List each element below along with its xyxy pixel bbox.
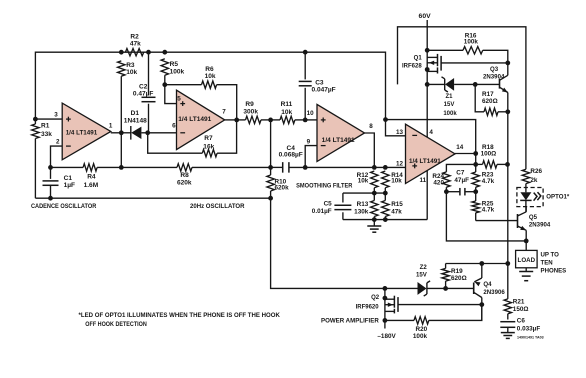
resistor R10 620k: [270, 120, 272, 175]
svg-text:2: 2: [56, 139, 60, 146]
svg-text:R11: R11: [281, 101, 293, 108]
svg-text:Q4: Q4: [483, 281, 492, 288]
svg-text:100k: 100k: [443, 111, 457, 117]
transistor Q1 IRF628 n-mosfet: [427, 56, 437, 58]
wire Q4 base: [446, 287, 474, 289]
svg-text:R2: R2: [130, 34, 139, 41]
svg-text:3: 3: [54, 112, 58, 119]
svg-text:4.7k: 4.7k: [482, 207, 495, 214]
wire line2 R19 top row: [446, 263, 508, 265]
node Q3 base tee: [473, 82, 478, 87]
resistor R12 10k: [371, 171, 378, 188]
node zener row / pin4 column: [425, 82, 430, 87]
node Q2 drain: [383, 296, 388, 301]
svg-text:IRF628: IRF628: [402, 64, 422, 70]
svg-text:1/4 LT1491: 1/4 LT1491: [66, 130, 98, 137]
node D1-C2-pin6: [145, 130, 150, 135]
svg-text:C3: C3: [315, 79, 324, 86]
resistor R26 2k: [522, 169, 529, 183]
svg-text:CADENCE OSCILLATOR: CADENCE OSCILLATOR: [31, 203, 97, 210]
wire Q1 gate to Q3 collector node: [441, 62, 508, 64]
wire R7 branch from pin6 node: [148, 133, 203, 153]
svg-text:R19: R19: [451, 268, 463, 275]
svg-text:Z2: Z2: [420, 264, 428, 271]
svg-text:2k: 2k: [530, 177, 538, 184]
svg-text:*LED OF OPTO1 ILLUMINATES WHEN: *LED OF OPTO1 ILLUMINATES WHEN THE PHONE…: [79, 312, 281, 319]
resistor R20 100k: [385, 319, 414, 321]
wire pin 5 lead: [165, 85, 177, 104]
resistor R14 10k: [382, 171, 389, 188]
svg-text:10k: 10k: [126, 69, 137, 76]
node C7-R23-R25: [473, 189, 478, 194]
node output14: [473, 151, 478, 156]
node R13-ground: [372, 217, 377, 222]
transistor Q2 IRF9620 p-mosfet: [385, 298, 395, 300]
svg-text:13: 13: [396, 129, 404, 136]
node R12-R13: [372, 191, 377, 196]
svg-text:SMOOTHING FILTER: SMOOTHING FILTER: [296, 183, 353, 190]
wire pin 3 lead: [35, 118, 62, 120]
wire output column down: [475, 154, 477, 173]
wire D1 node to pin 6: [148, 132, 177, 134]
wire Q2 gate wire: [398, 304, 482, 306]
svg-text:Q1: Q1: [414, 56, 423, 62]
svg-text:1µF: 1µF: [64, 182, 75, 189]
wire 60V rail: [398, 27, 526, 170]
svg-text:47k: 47k: [391, 208, 402, 215]
svg-text:1N4148: 1N4148: [124, 117, 147, 124]
node R5-R6-pin5: [162, 82, 167, 87]
resistor R4 1.6M: [51, 166, 84, 168]
resistor R3 10k: [118, 61, 125, 76]
wire bottom rail: [35, 197, 270, 199]
wire R3 to output node: [120, 76, 122, 133]
LOAD box: [516, 250, 538, 267]
node feedback-pin13: [383, 117, 388, 122]
node R9-R11-R10: [268, 118, 273, 123]
svg-text:11: 11: [420, 177, 427, 184]
svg-text:C1: C1: [64, 175, 73, 182]
svg-text:10k: 10k: [205, 73, 216, 80]
svg-text:47k: 47k: [130, 41, 141, 48]
node Q4 collector - Q2 gate: [479, 302, 484, 307]
node Q4 emitter on line2: [479, 261, 484, 266]
svg-text:7: 7: [222, 108, 226, 115]
svg-text:R4: R4: [87, 174, 96, 181]
svg-text:2N3904: 2N3904: [529, 221, 551, 228]
svg-text:R8: R8: [180, 172, 189, 179]
svg-text:130k: 130k: [354, 208, 369, 215]
svg-text:6: 6: [172, 123, 176, 130]
svg-text:20Hz OSCILLATOR: 20Hz OSCILLATOR: [190, 203, 245, 210]
node R19-Z2-Q4base: [443, 286, 448, 291]
svg-text:10k: 10k: [358, 178, 369, 185]
wire bottom rail down to power amp section: [271, 198, 385, 288]
wire tip to node: [225, 119, 237, 121]
node output U1a: [119, 130, 124, 135]
wire bottom row of filter: [343, 219, 427, 221]
svg-text:100k: 100k: [464, 39, 479, 46]
node output U1b: [234, 118, 239, 123]
svg-text:LOAD: LOAD: [518, 258, 536, 264]
transistor Q4 2N3906 pnp: [473, 283, 475, 295]
capacitor C2 0.47uF: [148, 52, 150, 95]
wire output pin1 to D1 node: [111, 132, 122, 134]
svg-text:R26: R26: [530, 168, 542, 175]
node rail-C2: [146, 50, 151, 55]
svg-text:100k: 100k: [170, 69, 185, 76]
op-amp U1d 1/4 LT1491 output amplifier: [406, 124, 456, 183]
svg-text:IRF9620: IRF9620: [356, 304, 380, 310]
svg-text:1.6M: 1.6M: [84, 182, 99, 189]
svg-text:0.47µF: 0.47µF: [133, 91, 154, 98]
svg-text:420: 420: [433, 180, 444, 187]
node R18-R23-R24: [473, 162, 478, 167]
resistor R21 150 ohm: [507, 264, 509, 299]
svg-text:Z1: Z1: [445, 94, 453, 100]
capacitor C3 0.047uF: [304, 52, 306, 79]
wire R24 branch: [446, 164, 475, 172]
svg-text:0.068µF: 0.068µF: [279, 152, 303, 159]
wire R24 column to line1: [446, 192, 526, 241]
supply 60V: [426, 20, 428, 27]
svg-text:R20: R20: [416, 326, 428, 333]
node pin3: [33, 117, 38, 122]
node R8-C4-R10: [268, 165, 273, 170]
node R11-C3-pin10: [303, 118, 308, 123]
svg-text:300k: 300k: [243, 108, 258, 115]
svg-text:R9: R9: [245, 101, 254, 108]
wire Q1 main column: [426, 27, 428, 85]
svg-text:C2: C2: [139, 84, 148, 91]
transistor Q3 2N3904 npn: [475, 83, 499, 85]
wire output 8: [365, 133, 375, 167]
diode D1 1N4148: [121, 132, 131, 134]
wire long right column down: [507, 112, 509, 264]
svg-text:R13: R13: [357, 201, 369, 208]
svg-text:1/4 LT1491: 1/4 LT1491: [178, 116, 212, 123]
node rail-R3: [119, 50, 124, 55]
svg-text:620k: 620k: [275, 184, 290, 191]
wire pin 4 to 60V rail: [426, 84, 428, 137]
svg-text:620Ω: 620Ω: [451, 275, 467, 282]
node gate-R16-collector: [505, 61, 510, 66]
node Q1 drain / R16: [425, 48, 430, 53]
resistor R16 100k: [427, 49, 463, 51]
node pin2-C1-R4: [48, 165, 53, 170]
ground below C6: [501, 332, 515, 334]
svg-text:60V: 60V: [419, 13, 432, 20]
svg-text:C5: C5: [324, 200, 333, 207]
svg-text:15V: 15V: [416, 271, 428, 278]
svg-text:TEN: TEN: [541, 259, 553, 266]
capacitor C6 0.033uF: [500, 321, 515, 323]
svg-text:33k: 33k: [41, 131, 52, 138]
resistor R13 130k: [371, 201, 378, 217]
wire mid junction row: [343, 192, 385, 194]
node Q1 source: [425, 67, 430, 72]
svg-text:1/4 LT1491: 1/4 LT1491: [409, 158, 441, 165]
svg-text:14: 14: [456, 144, 464, 151]
node R4-R8-output riser: [119, 165, 124, 170]
svg-text:16k: 16k: [203, 143, 214, 150]
svg-text:2N3906: 2N3906: [483, 289, 505, 296]
svg-text:R3: R3: [126, 62, 135, 69]
capacitor C5 0.01uF branch: [342, 193, 344, 202]
resistor R25 4.7k: [475, 192, 477, 201]
resistor R1 33k: [34, 119, 36, 124]
resistor R11 10k: [271, 119, 280, 121]
wire pin 2 lead: [51, 146, 63, 167]
resistor R7 16k: [202, 150, 217, 157]
ground below R13: [373, 220, 375, 226]
resistor R6 10k: [165, 84, 202, 86]
wire output riser: [120, 133, 122, 168]
svg-text:10k: 10k: [391, 178, 402, 185]
node Q2 source / R20: [383, 318, 388, 323]
capacitor C7 47uF: [446, 191, 460, 193]
resistor R18 100 ohm: [476, 163, 483, 165]
svg-text:2N3904: 2N3904: [483, 74, 505, 81]
resistor R8 620k: [121, 166, 177, 168]
svg-text:1490/1491 TA03: 1490/1491 TA03: [517, 336, 544, 340]
svg-text:150Ω: 150Ω: [513, 306, 529, 313]
resistor R17 620 ohm: [475, 84, 484, 111]
svg-text:Q2: Q2: [371, 295, 380, 301]
svg-text:15V: 15V: [444, 102, 455, 108]
resistor R24 420: [443, 172, 450, 187]
node rail-C3: [303, 50, 308, 55]
svg-text:R1: R1: [41, 123, 50, 130]
wire Q2 column to -180V: [384, 288, 386, 328]
svg-text:R7: R7: [204, 135, 213, 142]
resistor R23 4.7k: [472, 172, 479, 187]
wire pin 10 lead: [305, 119, 317, 121]
op-amp U1b 1/4 LT1491 20Hz oscillator: [177, 90, 225, 149]
svg-text:4: 4: [429, 129, 433, 136]
opto-isolator OPTO1 dashed box: [517, 188, 543, 207]
svg-text:POWER AMPLIFIER: POWER AMPLIFIER: [321, 318, 379, 325]
svg-text:8: 8: [369, 123, 373, 130]
svg-text:C7: C7: [456, 170, 465, 177]
node pin9 on C4 row: [303, 165, 308, 170]
node pin12-R14: [383, 165, 388, 170]
zener Z1 15V: [427, 83, 445, 85]
svg-text:1: 1: [109, 122, 113, 129]
svg-text:Q5: Q5: [529, 214, 538, 221]
svg-text:47µF: 47µF: [454, 177, 469, 184]
svg-text:0.033µF: 0.033µF: [517, 326, 541, 333]
svg-text:5: 5: [177, 95, 181, 102]
svg-text:620Ω: 620Ω: [482, 98, 498, 105]
resistor R15 47k: [382, 201, 389, 217]
resistor R5 100k: [161, 59, 168, 75]
node R10-bottom-rail: [268, 196, 273, 201]
wire top rail of oscillators: [35, 52, 385, 119]
resistor R19 620 ohm: [445, 264, 447, 269]
svg-text:10k: 10k: [281, 109, 292, 116]
svg-text:R5: R5: [170, 61, 179, 68]
wire pin 12 lead: [385, 166, 405, 168]
svg-text:R21: R21: [513, 299, 525, 306]
node line1-load-emitter: [524, 239, 529, 244]
transistor Q5 2N3904 npn: [517, 214, 519, 228]
zener Z2 15V: [427, 287, 446, 289]
svg-text:0.047µF: 0.047µF: [312, 87, 336, 94]
svg-text:R6: R6: [205, 66, 214, 73]
svg-text:–180V: –180V: [377, 333, 396, 340]
wire pin 13 lead: [386, 120, 406, 136]
svg-text:C6: C6: [517, 317, 526, 324]
svg-text:PHONES: PHONES: [541, 267, 567, 274]
node R14-R15: [383, 191, 388, 196]
wire C4 row to R12/R14: [305, 166, 385, 168]
svg-text:4.7k: 4.7k: [482, 178, 495, 185]
svg-text:10: 10: [307, 110, 315, 117]
svg-text:0.01µF: 0.01µF: [312, 208, 332, 215]
wire output 14: [455, 153, 476, 155]
op-amp U1c 1/4 LT1491 smoothing filter: [317, 104, 365, 161]
op-amp U1a 1/4 LT1491 cadence oscillator: [62, 103, 111, 160]
node R15-pin11-riser: [383, 217, 388, 222]
svg-text:100k: 100k: [413, 333, 428, 340]
node rail-R5: [162, 50, 167, 55]
svg-text:D1: D1: [131, 110, 140, 117]
svg-text:UP TO: UP TO: [541, 251, 560, 258]
wire pin 9 lead: [305, 146, 317, 168]
svg-text:9: 9: [307, 138, 311, 145]
svg-text:620k: 620k: [177, 179, 192, 186]
node C7-R24: [444, 189, 449, 194]
svg-text:100Ω: 100Ω: [481, 150, 497, 157]
resistor R2 47k: [125, 49, 143, 56]
node R17-emitter: [505, 109, 510, 114]
node Z2 row column: [383, 286, 388, 291]
ground below LOAD: [525, 268, 527, 272]
LED of OPTO1: [525, 184, 527, 193]
node output8-R12: [372, 165, 377, 170]
node R18 right on long column: [505, 162, 510, 167]
wire Q5 base row from R25: [476, 220, 518, 222]
node line2 to R21: [505, 261, 510, 266]
svg-text:12: 12: [396, 160, 404, 167]
wire pin 11 lead: [426, 171, 428, 220]
svg-text:1/4 LT1491: 1/4 LT1491: [322, 137, 356, 144]
resistor R9 300k: [237, 119, 246, 121]
svg-text:OPTO1*: OPTO1*: [546, 194, 570, 201]
svg-text:OFF HOOK DETECTION: OFF HOOK DETECTION: [85, 321, 147, 328]
svg-text:Q3: Q3: [490, 66, 499, 73]
opto light symbol: [534, 193, 537, 201]
svg-text:R15: R15: [391, 201, 403, 208]
node C1-bottom-rail: [48, 196, 53, 201]
capacitor C1 1uF: [50, 167, 52, 179]
wire feedback output to pin13 node: [386, 120, 476, 154]
capacitor C4 0.068uF in series: [271, 166, 283, 168]
